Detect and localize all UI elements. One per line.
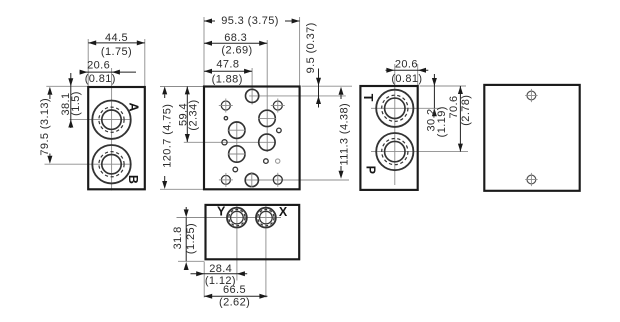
port cavity A2	[228, 146, 246, 162]
port A	[92, 101, 130, 139]
svg-text:20.6: 20.6	[87, 59, 110, 71]
pilot hole tiny lower-left	[233, 167, 238, 172]
body outline left view	[88, 87, 145, 189]
wire extension center-right	[299, 17, 301, 86]
wire extension center-left	[203, 17, 205, 86]
wire top-edge leader center-right	[302, 85, 353, 87]
dimension 31.8 (1.25)	[172, 207, 197, 270]
wire top-edge leader center-left	[160, 86, 204, 88]
dimension 20.6 (0.81) TP	[386, 59, 429, 85]
svg-text:111.3 (4.38): 111.3 (4.38)	[338, 103, 350, 166]
svg-text:47.8: 47.8	[216, 59, 239, 71]
svg-text:(2.78): (2.78)	[460, 95, 472, 126]
wire X vertical centerline	[265, 205, 267, 298]
wire top-edge leader left view	[46, 85, 88, 87]
svg-text:95.3 (3.75): 95.3 (3.75)	[221, 15, 279, 27]
wire vertical centerline x237	[236, 121, 238, 163]
dimension 30.2 (1.19)	[425, 74, 448, 137]
bolt hole top-right	[271, 99, 285, 113]
svg-text:(1.25): (1.25)	[185, 223, 197, 254]
port B	[92, 145, 130, 183]
svg-text:20.6: 20.6	[395, 59, 418, 71]
wire vertical centerline A-B	[111, 68, 113, 191]
dimension 66.5 (2.62)	[204, 284, 267, 308]
wire bottom ports centerline leader	[245, 179, 349, 181]
port Y	[227, 208, 247, 228]
svg-text:Y: Y	[217, 205, 226, 219]
port X	[256, 208, 276, 228]
dimension 79.5 (3.13)	[39, 87, 52, 164]
pilot hole tiny right	[277, 128, 282, 133]
wire bottom-edge leader bottom view	[178, 260, 205, 262]
bolt hole right-top	[525, 89, 537, 102]
dimension 20.6 (0.81) left view	[80, 59, 136, 85]
wire top-edge leader T/P right	[420, 85, 466, 87]
port cavity B2	[259, 134, 275, 150]
svg-text:(1.19): (1.19)	[436, 106, 448, 137]
wire vertical centerline T-P	[394, 64, 396, 185]
svg-text:T: T	[361, 94, 375, 102]
port top P	[246, 89, 259, 102]
dimension 59.4 (2.34)	[178, 86, 200, 142]
port bottom T	[245, 172, 258, 188]
svg-text:(2.62): (2.62)	[219, 296, 250, 308]
bolt hole bottom-right	[273, 173, 282, 187]
bolt hole bottom-left	[219, 173, 233, 187]
wire P horizontal centerline	[371, 151, 468, 153]
wire bottom-edge leader center-left	[160, 188, 204, 190]
bolt hole right-bottom	[525, 173, 537, 186]
svg-text:(0.81): (0.81)	[85, 73, 116, 85]
pilot hole small upper	[224, 117, 227, 120]
body outline right view	[484, 85, 579, 191]
dimension 38.1 (1.5)	[60, 73, 82, 128]
wire left edge extension bottom view	[203, 262, 205, 298]
dimension 28.4 (1.12)	[191, 263, 248, 287]
node small circle on gallery	[222, 140, 227, 145]
svg-text:9.5 (0.37): 9.5 (0.37)	[305, 22, 317, 73]
port P	[376, 133, 413, 170]
wire gallery centerline	[184, 141, 275, 143]
svg-text:66.5: 66.5	[223, 284, 246, 296]
svg-text:P: P	[363, 166, 377, 174]
port T	[376, 90, 413, 127]
body outline center view	[204, 87, 300, 190]
svg-text:120.7 (4.75): 120.7 (4.75)	[162, 104, 174, 168]
wire extension left edge	[87, 39, 89, 86]
wire extension right edge	[144, 39, 146, 86]
dimension 95.3 (3.75)	[204, 15, 300, 27]
wire port B horizontal centerline	[45, 163, 131, 165]
wire extension T/P right edge	[417, 64, 419, 86]
svg-text:(0.81): (0.81)	[391, 73, 422, 85]
svg-text:(1.75): (1.75)	[101, 46, 132, 58]
bolt hole top-left	[219, 99, 233, 113]
svg-text:A: A	[127, 102, 141, 111]
wire port A horizontal centerline	[70, 119, 131, 121]
wire Y vertical centerline	[236, 205, 238, 281]
wire X-Y horizontal centerline	[177, 217, 282, 219]
dimension 120.7 (4.75)	[162, 86, 174, 189]
pilot hole small pair left	[264, 159, 269, 164]
svg-text:79.5 (3.13): 79.5 (3.13)	[39, 98, 51, 156]
wire T horizontal centerline	[371, 107, 441, 109]
dimension 111.3 (4.38)	[338, 87, 350, 179]
svg-text:(2.69): (2.69)	[221, 44, 252, 56]
port cavity B1	[258, 110, 276, 126]
svg-text:70.6: 70.6	[448, 95, 460, 118]
svg-text:28.4: 28.4	[209, 263, 232, 275]
dimension 70.6 (2.78)	[448, 86, 472, 152]
dimension 9.5 (0.37)	[305, 22, 321, 107]
body outline T/P view	[360, 86, 417, 190]
svg-text:X: X	[279, 205, 288, 219]
pilot hole small pair right light	[276, 159, 280, 163]
port cavity A1	[228, 122, 246, 138]
body outline bottom view	[206, 205, 300, 259]
svg-text:68.3: 68.3	[224, 32, 247, 44]
svg-text:44.5: 44.5	[105, 32, 128, 44]
svg-text:31.8: 31.8	[172, 226, 184, 249]
wire vertical centerline x252	[251, 68, 253, 105]
dimension 44.5 (1.75)	[88, 32, 145, 58]
dimension 68.3 (2.69)	[204, 32, 267, 56]
wire vertical centerline x267	[266, 40, 268, 152]
svg-text:B: B	[126, 175, 140, 184]
wire port-P centerline right leader	[249, 95, 346, 97]
svg-text:(1.88): (1.88)	[212, 73, 243, 85]
svg-text:(1.5): (1.5)	[70, 91, 82, 116]
svg-text:(2.34): (2.34)	[188, 99, 200, 130]
dimension 47.8 (1.88)	[204, 59, 252, 86]
